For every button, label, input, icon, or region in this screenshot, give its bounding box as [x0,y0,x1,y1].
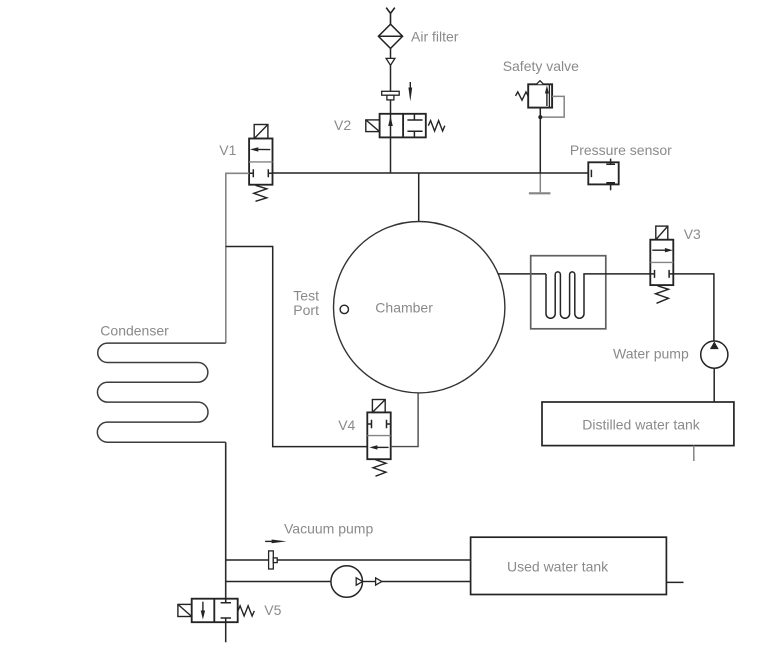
wire to used tank [382,581,471,583]
valve V2 blocked ports [407,114,422,138]
valve V1 body [249,139,272,185]
svg-text:V5: V5 [264,602,281,618]
svg-text:Pressure sensor: Pressure sensor [570,142,672,158]
wire V2 to main line [390,137,392,173]
valve V5 blocked ports [221,599,231,623]
svg-text:Water pump: Water pump [613,346,689,362]
vacuum pump [331,566,363,598]
svg-text:Condenser: Condenser [100,322,169,338]
used water tank [471,537,667,594]
valve V3 spring [656,286,669,304]
svg-text:Port: Port [293,302,319,318]
valve V3 blocked ports [650,270,673,278]
svg-text:V1: V1 [219,142,236,158]
distilled water tank [542,402,734,446]
safety valve pilot line [541,96,564,117]
wire V1 left to condenser (gray) [226,173,249,343]
used tank right stub [666,581,683,583]
wire filter to flow triangle [390,48,392,58]
valve V3 body [650,240,673,285]
valve V2 solenoid [366,120,380,132]
wire branch to V4 [226,247,367,447]
wire condenser outlet down [225,442,227,599]
svg-text:Distilled water tank: Distilled water tank [582,417,700,433]
chamber [334,222,505,393]
valve V4 flow arrow [369,445,388,449]
condenser coil [97,343,225,442]
main pneumatic line [273,172,589,174]
junction dot [538,115,542,119]
svg-text:Safety valve: Safety valve [503,58,579,74]
air filter [378,24,402,48]
wire safety valve to main line [539,108,541,173]
valve V4 solenoid [372,400,385,413]
valve V1 solenoid [254,125,268,139]
lower suction line left [226,581,331,583]
safety valve body [528,84,552,107]
safety valve vent cap [536,81,543,85]
water pump [701,341,728,368]
wire V4 to chamber bottom [391,393,418,447]
valve V5 solenoid [178,604,192,616]
heat exchanger coil [546,272,650,318]
valve V4 spring [373,460,386,477]
valve V1 blocked ports [249,169,272,177]
exhaust stub [539,173,541,192]
vacuum pump outlet triangle [356,578,362,585]
wire V5 exhaust [225,622,227,642]
valve V3 solenoid [656,226,668,240]
svg-text:Chamber: Chamber [375,300,433,316]
pressure sensor bottom blocked port [606,183,615,191]
safety valve spring [516,92,529,100]
svg-text:Air filter: Air filter [411,29,459,45]
flow arrow annotation (down) [408,82,412,102]
pressure sensor body [588,162,618,184]
svg-text:Used water tank: Used water tank [507,559,609,575]
wire V3 to water pump [673,274,714,341]
exhaust bar [529,192,551,194]
suction line coupling [269,551,278,569]
valve V1 flow arrow [250,147,270,151]
flow arrow annotation (right) [265,540,286,544]
heat exchanger shell [531,256,606,329]
quick coupling [382,91,400,100]
flow direction triangle [386,58,395,65]
svg-text:Vacuum pump: Vacuum pump [284,521,373,537]
valve V4 blocked ports [367,420,390,428]
valve V2 spring [428,121,445,131]
test port [340,305,348,313]
valve V3 flow arrow [652,248,673,252]
wire triangle to coupling [390,65,392,91]
valve V5 spring [238,606,254,616]
valve V2 flow path arrow [388,114,393,138]
svg-text:V4: V4 [338,417,355,433]
valve V2 body [380,114,426,138]
wire pump to check triangle [363,581,376,583]
check triangle [376,578,382,585]
upper suction line [226,559,471,561]
tank bottom stub (gray) [693,446,695,461]
valve V5 body [192,599,238,623]
atmosphere intake Y [386,8,395,25]
svg-text:V3: V3 [684,226,701,242]
valve V4 body [367,412,390,459]
valve V1 spring [254,185,267,201]
wire coupling to V2 [390,100,392,114]
valve V5 flow arrow [201,602,205,620]
wire chamber right to heat exchanger [498,273,547,275]
wire chamber top [418,173,420,222]
svg-text:V2: V2 [334,117,351,133]
pressure sensor top blocked port [606,159,615,165]
wire water pump to tank [713,368,715,402]
pressure sensor left port tick [590,170,592,178]
safety valve arrow [545,85,549,106]
